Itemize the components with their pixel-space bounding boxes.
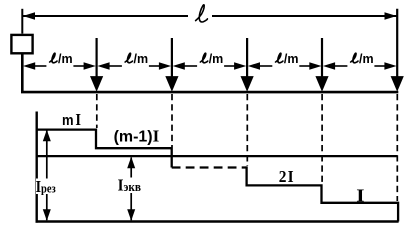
- svg-text:/m: /m: [209, 52, 224, 66]
- load arrow 2 line: [171, 38, 173, 80]
- load arrow 1 line: [95, 38, 97, 80]
- l/m dimension row span 1: [23, 52, 96, 70]
- Iekv arrowhead down: [127, 209, 135, 221]
- load arrow 2 head: [165, 76, 178, 92]
- dashed projection 3: [246, 94, 248, 166]
- dashed projection 1: [96, 94, 98, 128]
- svg-text:mI: mI: [62, 111, 81, 129]
- load arrow 4 line: [321, 38, 323, 80]
- equivalent current level line: [36, 155, 398, 157]
- dashed projection 5: [396, 94, 398, 201]
- l/m dimension row span 5: [323, 52, 397, 70]
- svg-text:/m: /m: [134, 52, 149, 66]
- source square: [11, 35, 32, 53]
- bottom axis: [36, 220, 399, 223]
- svg-text:I: I: [356, 187, 364, 206]
- load arrow 3 head: [241, 76, 254, 92]
- dimension line l (right segment): [212, 15, 397, 17]
- load arrow 5 head: [391, 76, 404, 92]
- dimension line l (left segment): [22, 15, 188, 17]
- current staircase solid part 2I,I: [247, 166, 399, 221]
- load arrow 5 line (shared with right extension line): [396, 9, 398, 80]
- dimension arrowhead left of l: [23, 12, 35, 20]
- l/m dimension row span 2: [97, 52, 171, 70]
- l/m dimension row span 4: [248, 52, 322, 70]
- Iekv double arrow line: [130, 158, 132, 221]
- svg-text:2I: 2I: [279, 168, 294, 186]
- svg-text:(m-1)I: (m-1)I: [114, 127, 160, 146]
- dashed projection 4: [321, 94, 323, 184]
- white backing for Irez label: [36, 179, 60, 195]
- load arrow 4 head: [315, 76, 328, 92]
- load arrow 1 head: [90, 76, 103, 92]
- dimension arrowhead right of l: [385, 12, 397, 20]
- load arrow 3 line: [246, 38, 248, 80]
- wire from square to feeder: [22, 54, 398, 92]
- Irez arrowhead down: [43, 209, 51, 221]
- label l (script ell): [196, 5, 208, 22]
- Iekv arrowhead up: [127, 157, 135, 169]
- svg-text:/m: /m: [58, 52, 73, 66]
- svg-text:/m: /m: [359, 52, 374, 66]
- dashed ellipsis level of staircase: [172, 166, 247, 168]
- current staircase solid part mI,(m-1)I: [36, 130, 172, 168]
- white backing for Iekv label: [117, 178, 146, 194]
- dimension extension line left: [21, 9, 23, 34]
- Irez arrowhead up: [43, 130, 51, 142]
- svg-text:/m: /m: [284, 52, 299, 66]
- svg-text:Iэкв: Iэкв: [118, 177, 142, 195]
- l/m dimension row span 3: [173, 52, 247, 70]
- Irez double arrow line: [46, 131, 48, 221]
- dashed projection 2: [171, 94, 173, 147]
- left axis: [36, 112, 38, 223]
